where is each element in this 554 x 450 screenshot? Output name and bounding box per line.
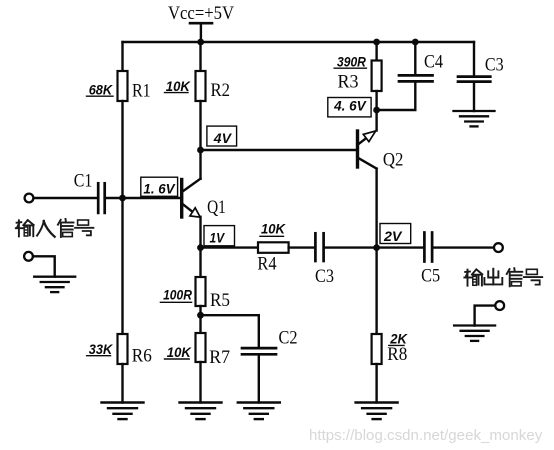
svg-text:10K: 10K (166, 78, 191, 94)
capacitor C4 (399, 75, 433, 81)
voltage label box 4.6V (328, 98, 371, 117)
svg-text:R8: R8 (387, 344, 407, 365)
wire R5 to R7 junction (199, 306, 201, 333)
voltage label box 1V (204, 226, 235, 246)
wire C2 to ground (258, 355, 260, 403)
wire C5 to output terminal (433, 246, 494, 248)
junction dot R3 top on rail (373, 39, 380, 46)
junction dot C4 top on rail (412, 39, 419, 46)
node 4V junction dot (197, 147, 204, 154)
input ground terminal circle (24, 252, 33, 261)
capacitor C3 (coupling) (315, 233, 323, 261)
junction dot R3/C4/Q2-emitter (373, 107, 380, 114)
wire Q2 emitter vertical (375, 110, 377, 131)
junction dot C1/R1/R6/base (119, 195, 126, 202)
wire junction to C2 (201, 315, 259, 347)
Vcc=+5V supply symbol (168, 3, 234, 42)
svg-text:390R: 390R (337, 53, 367, 69)
capacitor C5 (424, 233, 432, 262)
value 10K (R4) (260, 221, 286, 237)
ground (R7) (180, 403, 222, 420)
capacitor C3 (bypass) (458, 77, 490, 82)
svg-text:C3: C3 (485, 55, 504, 76)
svg-text:R6: R6 (132, 345, 152, 366)
wire C3 to 2V node (325, 246, 377, 248)
transistor Q1 emitter arrow (190, 208, 200, 217)
resistor R7 (196, 333, 206, 362)
label output signal (Chinese) (464, 268, 542, 286)
wire 2V node to C5 (377, 246, 424, 248)
voltage label box 1.6V (141, 177, 178, 197)
svg-text:Vcc=+5V: Vcc=+5V (168, 3, 234, 24)
wire rail corner to C3 bypass (473, 42, 475, 76)
wire C3 to ground (473, 83, 475, 112)
resistor R1 (118, 71, 128, 101)
svg-text:10K: 10K (167, 344, 192, 360)
transistor Q2 emitter arrow (363, 131, 375, 142)
ground (R8) (356, 403, 398, 420)
capacitor C1 (98, 183, 105, 213)
ground (R6) (102, 403, 144, 420)
svg-text:10K: 10K (261, 221, 286, 237)
junction dot Vcc-rail (197, 39, 204, 46)
wire Q1 collector riser (199, 150, 201, 179)
input terminal circle (25, 194, 34, 203)
wire C4 bottom to Q2 emitter node (377, 82, 416, 110)
svg-text:C2: C2 (279, 328, 298, 349)
svg-text:C1: C1 (74, 170, 93, 191)
svg-text:2V: 2V (383, 228, 403, 244)
ground (input) (34, 277, 75, 292)
svg-text:C4: C4 (424, 51, 443, 72)
output terminal circle (494, 243, 503, 252)
wire input ground link (33, 256, 55, 276)
wire 1V node to R4 (201, 246, 259, 248)
transistor Q1 collector diagonal (183, 179, 201, 192)
junction dot R5/R7/C2 (197, 312, 204, 319)
wire rail to C4 (414, 42, 416, 74)
resistor R2 (196, 71, 206, 101)
svg-text:C5: C5 (421, 266, 440, 287)
wire R8 to ground (375, 364, 377, 403)
resistor R3 (372, 61, 382, 92)
wire 1V node to R5 (199, 248, 201, 277)
svg-text:Q1: Q1 (207, 197, 226, 218)
value 68K (87, 82, 114, 98)
svg-text:4V: 4V (213, 130, 233, 146)
wire R6 to ground (121, 364, 123, 403)
svg-text:C3: C3 (315, 266, 334, 287)
svg-text:33K: 33K (89, 341, 113, 357)
wire 2V node to R8 (375, 248, 377, 334)
value 100R (160, 287, 192, 303)
svg-text:68K: 68K (89, 82, 113, 98)
transistor Q2 base bar (356, 131, 359, 167)
wire rail to R3 (375, 42, 377, 61)
wire rail to R1 top (121, 42, 123, 71)
svg-text:R1: R1 (132, 81, 151, 102)
ground (C3 bypass) (454, 111, 495, 126)
value 10K (R7) (165, 344, 192, 360)
wire R2 bottom to 4V node (199, 101, 201, 150)
node 1V junction dot (197, 244, 204, 251)
wire rail to R2 top (199, 42, 201, 71)
wire 4V node to Q2 base (201, 149, 357, 151)
transistor Q1 emitter diagonal (183, 204, 193, 212)
svg-text:R4: R4 (257, 253, 277, 274)
node 2V junction dot (373, 244, 380, 251)
svg-text:R2: R2 (211, 80, 231, 101)
voltage label box 2V (380, 224, 411, 244)
wire R4 to C3 (289, 246, 315, 248)
voltage label box 4V (207, 126, 237, 146)
resistor R5 (196, 277, 206, 306)
svg-text:R3: R3 (338, 71, 359, 92)
value 390R (334, 53, 366, 69)
resistor R4 (258, 242, 289, 253)
wire output ground link (475, 306, 496, 326)
wire input terminal to C1 (34, 197, 98, 199)
label input signal (Chinese) (16, 219, 94, 237)
ground (output) (454, 326, 495, 341)
wire R3 to Q2 emitter node (375, 91, 377, 110)
wire R1 bottom to input node (121, 101, 123, 198)
resistor R8 (372, 334, 382, 364)
wire Q1 emitter to 1V node (199, 217, 201, 248)
svg-text:https://blog.csdn.net/geek_mon: https://blog.csdn.net/geek_monkey (309, 427, 543, 444)
value 2K (389, 331, 408, 347)
wire input node down to R6 (121, 198, 123, 334)
power rail Vcc (top bus wire) (123, 41, 475, 43)
svg-text:1. 6V: 1. 6V (143, 181, 176, 197)
capacitor C2 (242, 348, 276, 354)
wire R7 to ground (199, 362, 201, 403)
ground (C2) (238, 403, 280, 420)
transistor Q2 emitter diagonal (359, 138, 367, 144)
transistor Q2 collector diagonal (359, 158, 377, 168)
wire C1 to Q1 base (106, 197, 181, 199)
svg-text:1V: 1V (210, 229, 226, 245)
transistor Q1 base bar (180, 180, 183, 218)
svg-text:R5: R5 (210, 290, 230, 311)
output ground terminal circle (495, 301, 504, 310)
value 10K (R2) (165, 78, 191, 94)
value 33K (87, 341, 113, 357)
wire Q2 collector to 2V node (375, 169, 377, 248)
svg-text:R7: R7 (209, 347, 230, 368)
svg-text:Q2: Q2 (383, 150, 404, 171)
svg-text:100R: 100R (163, 287, 193, 303)
resistor R6 (118, 334, 128, 364)
svg-text:4. 6V: 4. 6V (333, 98, 367, 114)
